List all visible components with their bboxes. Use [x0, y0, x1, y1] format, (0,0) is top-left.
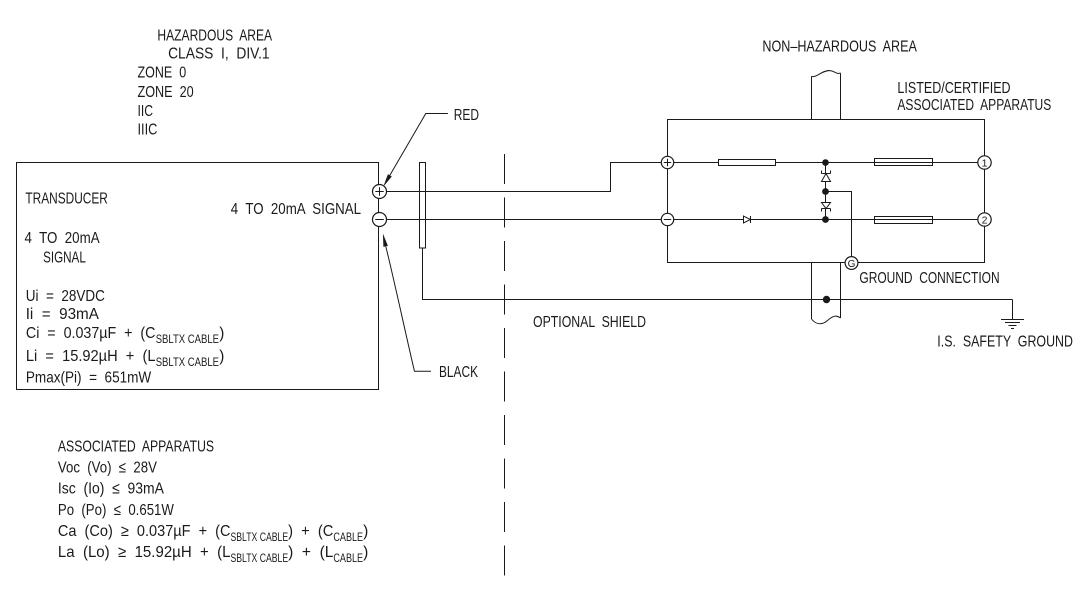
- diode D1: [744, 216, 751, 223]
- svg-text:RED: RED: [454, 107, 479, 124]
- cable to ground (bottom): [811, 263, 813, 320]
- svg-text:OPTIONAL SHIELD: OPTIONAL SHIELD: [533, 314, 646, 331]
- leader line BLACK: [386, 247, 431, 372]
- svg-text:G: G: [848, 259, 856, 270]
- junction dot shield/cable: [823, 296, 830, 303]
- svg-text:I.S. SAFETY GROUND: I.S. SAFETY GROUND: [937, 333, 1073, 350]
- terminal G: [845, 257, 858, 270]
- svg-text:HAZARDOUS AREA: HAZARDOUS AREA: [157, 27, 272, 44]
- svg-text:GROUND CONNECTION: GROUND CONNECTION: [859, 270, 999, 287]
- svg-text:TRANSDUCER: TRANSDUCER: [25, 190, 108, 207]
- hazardous/non-hazardous boundary dashed line: [504, 154, 506, 585]
- svg-text:CLASS I, DIV.1: CLASS I, DIV.1: [168, 46, 270, 63]
- svg-text:CABLE: CABLE: [333, 551, 363, 565]
- svg-text:LISTED/CERTIFIED: LISTED/CERTIFIED: [897, 80, 1010, 97]
- param La with cable subscripts: [58, 544, 368, 565]
- wire apparatus top rail: [668, 162, 719, 164]
- terminal 1: [978, 156, 991, 169]
- cable to non-hazardous area (top): [811, 76, 813, 119]
- svg-text:IIIC: IIIC: [138, 122, 158, 139]
- wire bottom rail to terminal 2: [751, 219, 985, 221]
- svg-text:SBLTX CABLE: SBLTX CABLE: [156, 332, 219, 346]
- minus sign transducer: [375, 219, 383, 221]
- arrowhead BLACK: [383, 234, 388, 247]
- minus sign apparatus: [664, 219, 671, 221]
- svg-text:) + (L: ) + (L: [288, 544, 333, 561]
- svg-text:SIGNAL: SIGNAL: [43, 250, 86, 267]
- svg-text:SBLTX CABLE: SBLTX CABLE: [231, 530, 289, 544]
- param Li with cable subscript: [26, 348, 224, 369]
- plus sign apparatus: [664, 159, 671, 166]
- svg-text:ZONE 20: ZONE 20: [138, 84, 194, 101]
- optional shield capacitor bar: [420, 163, 426, 249]
- param Ca with cable subscripts: [58, 523, 368, 544]
- svg-text:Po (Po) ≤ 0.651W: Po (Po) ≤ 0.651W: [58, 502, 175, 519]
- I.S. safety ground symbol: [1012, 300, 1014, 320]
- svg-text:Voc (Vo) ≤ 28V: Voc (Vo) ≤ 28V: [58, 460, 157, 477]
- wire - rail transducer to apparatus: [380, 219, 668, 221]
- associated apparatus box: [668, 120, 985, 263]
- svg-text:Pmax(Pi) = 651mW: Pmax(Pi) = 651mW: [26, 370, 152, 387]
- svg-text:1: 1: [982, 157, 988, 169]
- arrowhead RED: [383, 174, 392, 186]
- svg-text:): ): [363, 523, 368, 540]
- wire top rail to terminal 1: [776, 162, 985, 164]
- svg-text:CABLE: CABLE: [333, 530, 363, 544]
- transducer + terminal: [373, 185, 387, 199]
- svg-text:ZONE 0: ZONE 0: [138, 65, 187, 82]
- svg-text:IIC: IIC: [138, 103, 154, 120]
- svg-text:): ): [363, 544, 368, 561]
- apparatus - terminal: [661, 213, 673, 225]
- transducer - terminal: [373, 213, 387, 227]
- svg-text:SBLTX CABLE: SBLTX CABLE: [156, 355, 219, 369]
- svg-text:ASSOCIATED APPARATUS: ASSOCIATED APPARATUS: [897, 97, 1051, 114]
- wire + rail transducer to apparatus: [380, 163, 668, 192]
- svg-text:Ui = 28VDC: Ui = 28VDC: [26, 288, 105, 305]
- svg-text:) + (C: ) + (C: [288, 523, 333, 540]
- wire zener midpoint to ground terminal G: [826, 192, 852, 257]
- svg-text:ASSOCIATED APPARATUS: ASSOCIATED APPARATUS: [58, 439, 214, 456]
- junction dot bottom rail: [822, 216, 829, 223]
- svg-text:2: 2: [982, 214, 988, 226]
- junction dot zener midpoint: [822, 188, 829, 195]
- leader line RED: [389, 114, 448, 177]
- zener diode Z1: [825, 163, 827, 174]
- param Ci with cable subscript: [26, 325, 224, 346]
- junction dot top rail: [822, 159, 829, 166]
- svg-text:Ci = 0.037µF + (C: Ci = 0.037µF + (C: [26, 325, 156, 342]
- svg-text:4 TO 20mA SIGNAL: 4 TO 20mA SIGNAL: [231, 201, 361, 218]
- svg-text:4 TO 20mA: 4 TO 20mA: [25, 230, 100, 247]
- svg-text:SBLTX CABLE: SBLTX CABLE: [231, 551, 289, 565]
- transducer box: [17, 163, 379, 390]
- terminal 2: [978, 213, 991, 226]
- resistor R1: [719, 160, 776, 166]
- svg-text:Ca (Co) ≥ 0.037µF + (C: Ca (Co) ≥ 0.037µF + (C: [58, 523, 231, 540]
- zener diode Z2: [825, 192, 827, 203]
- wire shield drop: [423, 248, 1013, 300]
- svg-text:Isc (Io) ≤ 93mA: Isc (Io) ≤ 93mA: [58, 480, 164, 497]
- svg-text:): ): [219, 348, 224, 365]
- svg-text:NON–HAZARDOUS AREA: NON–HAZARDOUS AREA: [762, 38, 917, 55]
- apparatus + terminal: [661, 156, 673, 168]
- wire apparatus bottom rail: [668, 219, 744, 221]
- svg-text:Ii = 93mA: Ii = 93mA: [26, 306, 100, 323]
- plus sign transducer: [375, 187, 383, 195]
- fuse F2: [875, 217, 933, 224]
- svg-text:): ): [219, 325, 224, 342]
- svg-text:La (Lo) ≥ 15.92µH + (L: La (Lo) ≥ 15.92µH + (L: [58, 544, 231, 561]
- fuse F1: [875, 159, 933, 166]
- svg-text:BLACK: BLACK: [439, 364, 478, 381]
- svg-text:Li = 15.92µH + (L: Li = 15.92µH + (L: [26, 348, 156, 365]
